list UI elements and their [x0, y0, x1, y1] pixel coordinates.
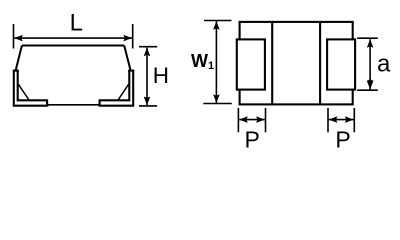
dimension L: extension ticks: [14, 24, 133, 49]
dimension P right: dimension line: [329, 119, 354, 121]
bottom view: left terminal pad: [237, 39, 265, 89]
dimension L: dimension line: [14, 37, 132, 39]
dimension W1: dimension line: [215, 21, 217, 103]
bottom view: right terminal pad: [327, 39, 355, 89]
svg-text:L: L: [70, 9, 83, 36]
side view: right solder fillet diagonal: [118, 84, 129, 100]
dimension H: top arrowhead: [144, 48, 151, 57]
dimension H: bottom arrowhead: [144, 97, 151, 106]
dimension P left: dimension line: [239, 119, 265, 121]
side view: molded body outline: [16, 46, 131, 70]
dimension H: extension lines: [139, 47, 157, 106]
dimension a: bottom arrowhead: [367, 79, 374, 89]
side view: right terminal lead: [99, 71, 135, 106]
svg-text:W: W: [191, 51, 208, 71]
dimension a: extension lines: [357, 38, 378, 90]
side view: body bottom line: [47, 104, 100, 106]
dimension P left: extension ticks: [238, 108, 265, 132]
svg-text:1: 1: [208, 60, 214, 72]
dimension H: dimension line: [146, 48, 148, 106]
dimension L: left arrowhead: [14, 35, 23, 42]
bottom view: body outline: [240, 22, 353, 105]
svg-text:P: P: [335, 127, 350, 153]
svg-text:P: P: [245, 127, 260, 153]
svg-text:H: H: [153, 63, 169, 88]
dimension L: right arrowhead: [123, 35, 132, 42]
side view: left solder fillet diagonal: [18, 84, 29, 100]
dimension P right: extension ticks: [328, 108, 354, 132]
bottom view: right mold parting line: [319, 22, 321, 105]
dimension P left: right arrowhead: [256, 116, 265, 123]
dimension W1: top arrowhead: [213, 21, 220, 30]
dimension P right: left arrowhead: [329, 116, 338, 123]
side view: left terminal lead: [13, 71, 49, 106]
dimension P right: right arrowhead: [345, 116, 354, 123]
dimension a: top arrowhead: [367, 39, 374, 48]
dimension W1: bottom arrowhead: [213, 94, 220, 103]
dimension P left: left arrowhead: [239, 116, 248, 123]
dimension a: dimension line: [369, 39, 371, 89]
bottom view: left mold parting line: [271, 22, 273, 105]
svg-text:a: a: [377, 51, 391, 78]
dimension W1: extension lines: [203, 21, 232, 104]
